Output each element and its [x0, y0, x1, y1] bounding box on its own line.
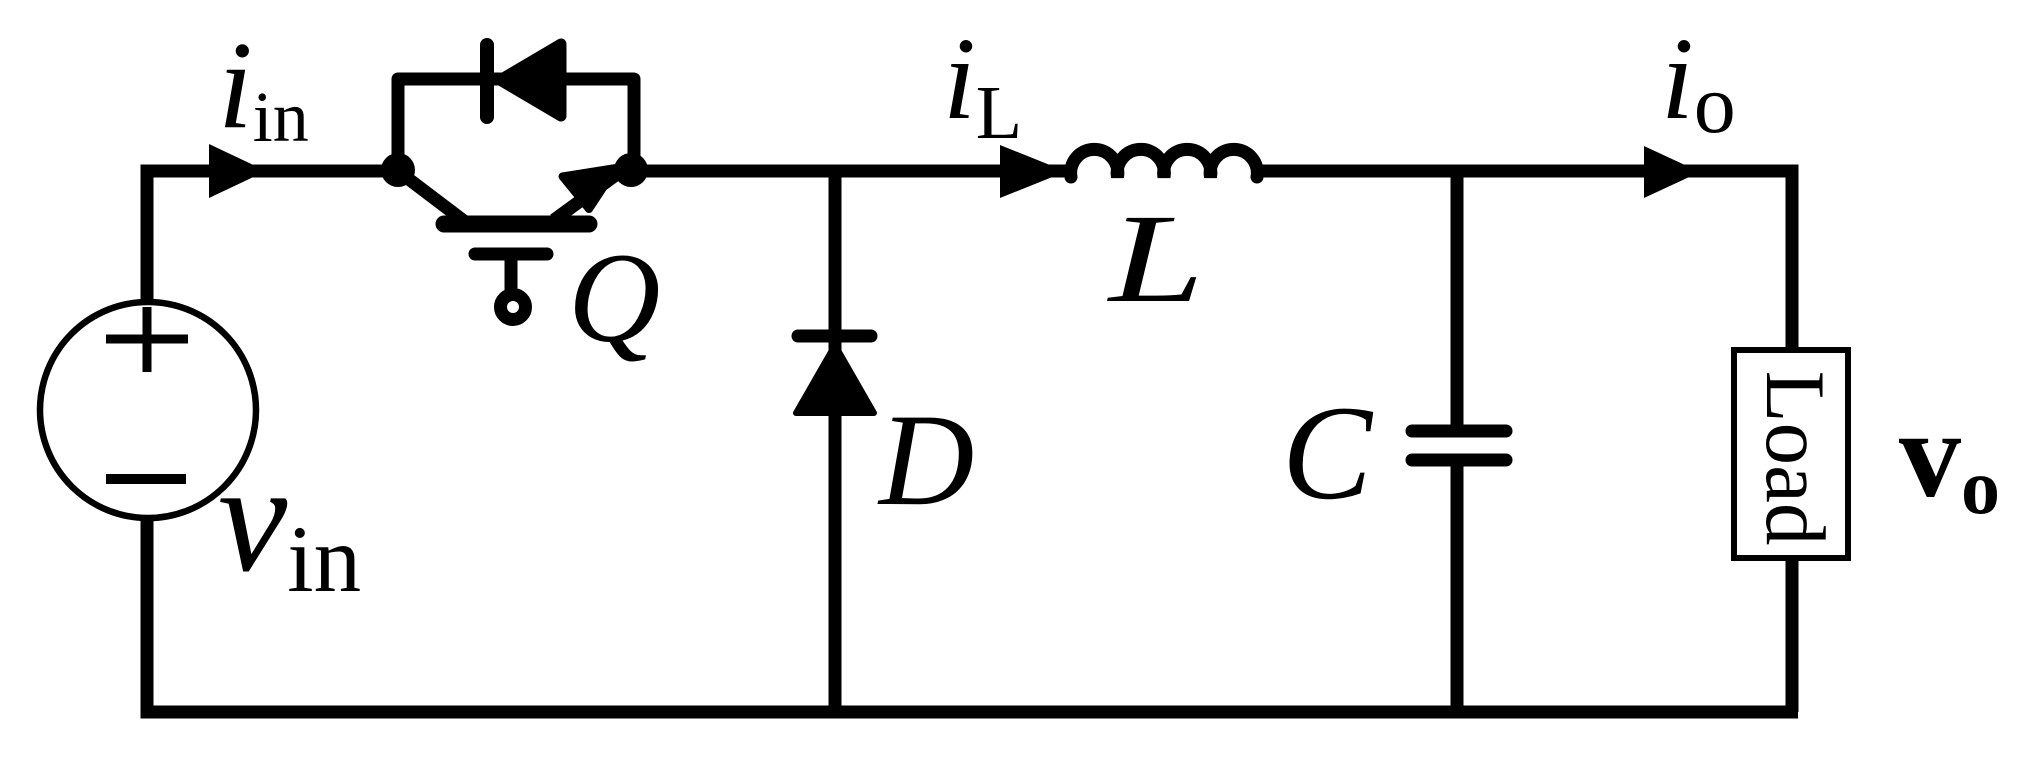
- wire: capacitor branch vertical lower: [1451, 458, 1464, 712]
- wire: antiparallel-diode bridge: [398, 79, 634, 171]
- wire: top rail from right node to inductor: [631, 165, 1071, 178]
- wire: left vertical lower (Vin - terminal to bottom rail): [141, 516, 154, 719]
- wire: diode D branch vertical: [829, 171, 842, 712]
- node: transistor left junction: [381, 153, 415, 187]
- wire: capacitor branch vertical upper: [1451, 171, 1464, 437]
- plus sign of Vin: [106, 307, 188, 372]
- wire: top rail from inductor to top-right corner: [1257, 165, 1798, 178]
- arrow i_o: [1644, 146, 1700, 198]
- svg-text:D: D: [877, 386, 974, 533]
- transistor Q collector diagonal: [402, 174, 464, 221]
- label L: [1107, 188, 1205, 329]
- wire: right vertical lower (Load to bottom rail): [1786, 561, 1799, 712]
- transistor Q emitter arrow: [563, 168, 617, 209]
- transistor Q gate stem: [505, 254, 518, 295]
- node: transistor right junction: [614, 153, 648, 187]
- capacitor C bottom plate: [1412, 454, 1506, 467]
- svg-text:C: C: [1282, 379, 1374, 528]
- transistor Q body bar: [444, 216, 589, 233]
- voltage source Vin circle: [40, 302, 256, 518]
- wire: left vertical upper (to Vin + terminal): [141, 165, 154, 304]
- svg-text:Load: Load: [1748, 371, 1842, 546]
- transistor Q gate terminal circle: [501, 295, 526, 320]
- arrow i_in: [209, 144, 266, 198]
- transistor Q gate bar: [475, 248, 547, 261]
- load box: [1734, 350, 1848, 558]
- minus sign of Vin: [106, 474, 186, 484]
- svg-text:Q: Q: [568, 227, 660, 369]
- diode D triangle: [796, 345, 874, 413]
- wire: bottom rail: [141, 706, 1798, 719]
- antiparallel diode of Q (triangle): [500, 44, 561, 116]
- svg-text:L: L: [1107, 188, 1205, 329]
- transistor Q emitter diagonal: [554, 169, 624, 220]
- capacitor C top plate: [1412, 425, 1506, 438]
- wire: top-left horizontal (Vin to node): [141, 165, 398, 178]
- diode D cathode bar: [798, 330, 871, 343]
- inductor L coil: [1071, 149, 1258, 177]
- wire: right vertical upper (corner to Load): [1786, 165, 1799, 348]
- arrow i_L: [1000, 145, 1066, 198]
- antiparallel diode of Q (cathode bar): [480, 45, 494, 117]
